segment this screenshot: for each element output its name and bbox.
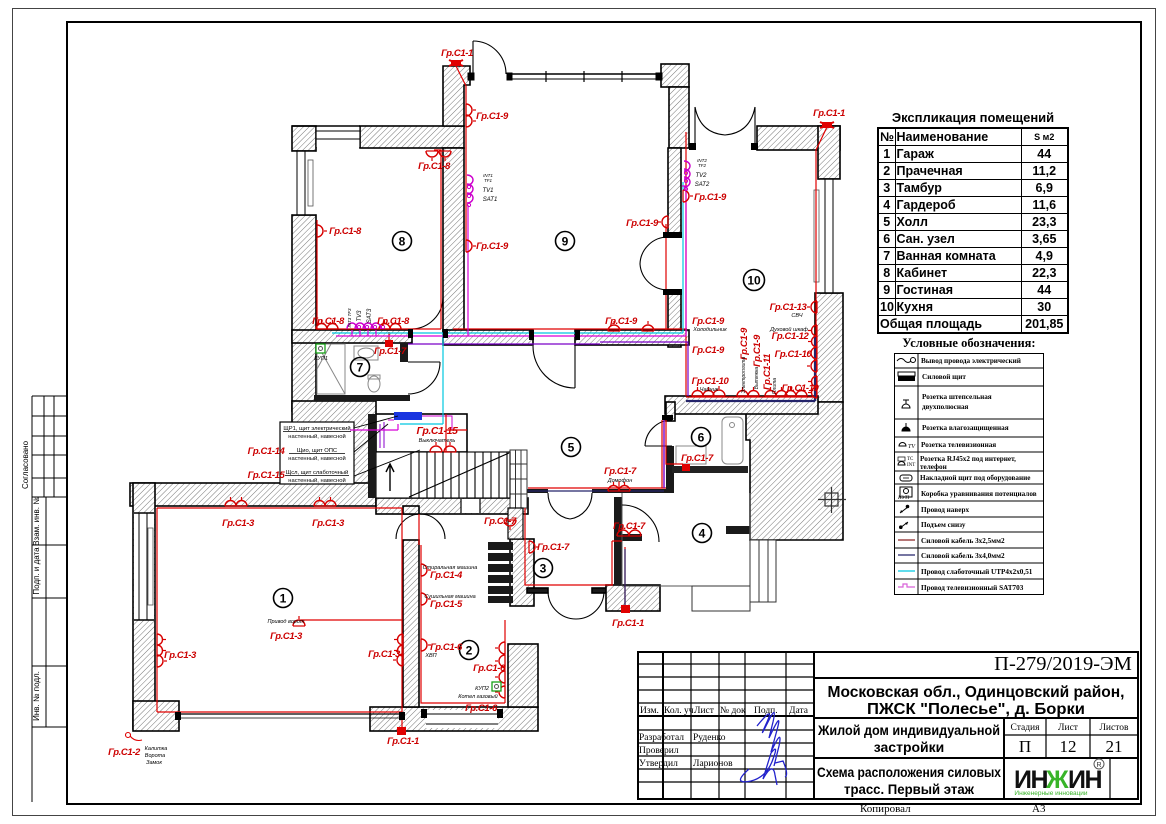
socket room2 right wall 2 (495, 655, 505, 667)
svg-text:Гр.С1-9: Гр.С1-9 (476, 111, 509, 122)
wall san-uzel left upper2 (666, 402, 675, 421)
socket room8 left (317, 225, 327, 237)
svg-text:Лист: Лист (1058, 723, 1079, 733)
socket rack hall (529, 541, 539, 553)
tv socket room9 stack INT1/TV1/SAT1 (467, 175, 473, 189)
room 6 circle (692, 428, 711, 447)
socket kitchen bottom 1 (692, 387, 714, 396)
svg-text:Утвердил: Утвердил (639, 759, 678, 769)
socket room2 dryer (421, 593, 431, 605)
panel wires in closet (380, 422, 384, 448)
svg-text:П-279/2019-ЭМ: П-279/2019-ЭМ (994, 653, 1132, 675)
KUP2 box (492, 682, 501, 691)
cross grid marker (818, 487, 846, 513)
svg-text:6: 6 (698, 431, 705, 445)
svg-text:R: R (1096, 762, 1101, 769)
socket garage ceiling 2 (314, 497, 336, 506)
svg-text:Вывод провода электрический: Вывод провода электрический (921, 357, 1021, 365)
socket room8 bottom 2 (379, 320, 401, 329)
garage gate opening bottom (179, 714, 403, 718)
double door entry room3 bottom (548, 592, 604, 619)
wall sanuzel-hall vertical (666, 446, 674, 493)
svg-text:Стиральная машина: Стиральная машина (423, 565, 478, 571)
svg-text:Гр.С1-5: Гр.С1-5 (430, 599, 463, 610)
svg-text:телефон: телефон (920, 463, 947, 471)
wall hall bottom right seg (592, 489, 673, 493)
svg-text:Гр.С1-6: Гр.С1-6 (465, 703, 498, 714)
svg-text:Дата: Дата (789, 706, 809, 716)
wall stub room4 left top (616, 534, 642, 541)
svg-text:TF2: TF2 (698, 163, 706, 168)
socket garage right wall (394, 634, 403, 656)
wall hall top right of opening (575, 330, 689, 345)
wall room7/8 bottom (292, 330, 412, 343)
socket room9 right (658, 216, 668, 228)
svg-text:Гр.С1-3: Гр.С1-3 (164, 650, 197, 661)
wall room8 top-left corner block (292, 126, 316, 151)
room 9 circle (556, 232, 575, 251)
socket hall above rack (504, 520, 516, 530)
svg-text:КУП2: КУП2 (475, 686, 489, 692)
left rows (637, 664, 814, 782)
svg-text:Руденко: Руденко (693, 733, 726, 743)
door room7 (408, 362, 440, 394)
svg-text:Гр.С1-3: Гр.С1-3 (270, 631, 303, 642)
wire red room9 bottom and right (453, 224, 687, 330)
svg-text:Вытяжка: Вытяжка (754, 367, 760, 390)
svg-text:Лист: Лист (694, 706, 715, 716)
svg-text:8: 8 (399, 235, 406, 249)
wire red hall (528, 420, 666, 488)
socket room8 top 1 (426, 151, 438, 161)
porch steps right (750, 540, 776, 602)
INZHIN logo (1014, 759, 1104, 797)
svg-text:ХВП: ХВП (424, 653, 436, 659)
svg-text:Ларионов: Ларионов (693, 759, 733, 769)
svg-text:Гр.С1-8: Гр.С1-8 (418, 161, 451, 172)
svg-text:настенный, навесной: настенный, навесной (288, 455, 345, 462)
svg-text:двухполюсная: двухполюсная (922, 403, 969, 411)
svg-text:Розетка телевизионная: Розетка телевизионная (921, 441, 996, 449)
double door hall-room3 (548, 493, 592, 519)
svg-text:Московская обл., Одинцовский р: Московская обл., Одинцовский район, (828, 684, 1125, 701)
room 5 circle (562, 438, 581, 457)
door arc entrance room9 top (473, 41, 506, 77)
svg-text:ЩР1, щит электрический: ЩР1, щит электрический (283, 425, 350, 432)
svg-text:Гр.С1-9: Гр.С1-9 (626, 218, 659, 229)
svg-text:2: 2 (466, 644, 473, 658)
wall room8 top (360, 126, 464, 148)
socket garage ceiling 1 (225, 497, 247, 506)
wire UTP cyan hall run (332, 182, 683, 424)
wire red sanuzel (666, 415, 683, 464)
socket kitchen right oven (808, 325, 817, 347)
socket hall domofon (608, 482, 630, 491)
socket room2 right wall 1 (495, 642, 505, 654)
jamb caps at wall openings (175, 143, 758, 720)
door garage-room2 (396, 514, 445, 539)
socket room2 hvp (421, 639, 431, 651)
stage sheet (1011, 723, 1130, 733)
svg-text:Гр.С1-9: Гр.С1-9 (694, 192, 727, 203)
socket kitchen bottom 2 (737, 387, 759, 396)
wire red kitchen perimeter (686, 127, 827, 397)
svg-text:Схема расположения силовых: Схема расположения силовых (817, 764, 1001, 780)
wall room10 top (757, 126, 840, 150)
svg-text:Взам. инв. №: Взам. инв. № (32, 496, 41, 546)
svg-text:Гр.С1-10: Гр.С1-10 (692, 376, 730, 387)
svg-text:Силовой щит: Силовой щит (922, 373, 966, 381)
svg-text:Замок: Замок (146, 760, 162, 766)
wire purple hall top (408, 342, 688, 396)
wire red feed from star top (456, 66, 466, 250)
svg-text:Кол. уч: Кол. уч (664, 706, 694, 716)
wall garage left (133, 483, 155, 729)
annotation box left (280, 422, 354, 484)
svg-text:Гр.С1-9: Гр.С1-9 (605, 316, 638, 327)
svg-text:Инженерные инновации: Инженерные инновации (1014, 790, 1088, 797)
window garage left wall (134, 513, 154, 620)
wall garage top (130, 483, 376, 506)
wall garage right / room2 left (403, 540, 419, 707)
wall room9/room10 upper (669, 87, 689, 148)
socket kitchen bottom 4 (785, 387, 807, 396)
room 3 circle (534, 559, 553, 578)
svg-text:Гр.С1-9: Гр.С1-9 (692, 345, 725, 356)
socket kitchen bottom 1b (713, 386, 725, 396)
svg-text:Гр.С1-14: Гр.С1-14 (248, 446, 286, 457)
socket kitchen right 10c (808, 376, 817, 398)
svg-text:трасс. Первый этаж: трасс. Первый этаж (844, 781, 975, 797)
svg-text:Гр.С1-9: Гр.С1-9 (692, 316, 725, 327)
svg-text:Изм.: Изм. (640, 706, 659, 716)
svg-text:Калитка: Калитка (145, 746, 168, 752)
svg-text:Плита: Плита (772, 378, 778, 394)
sink room7 (354, 346, 378, 360)
svg-text:Гр.С1-7: Гр.С1-7 (613, 521, 646, 532)
svg-text:настенный, навесной: настенный, навесной (288, 433, 345, 440)
socket garage left wall (157, 634, 166, 656)
socket kitchen right 10b (807, 360, 817, 372)
svg-text:9: 9 (562, 235, 569, 249)
tv socket room8 stack (347, 323, 361, 329)
legend symbols (897, 358, 916, 588)
panel ShchR1 blue (394, 412, 422, 420)
svg-text:SAT2: SAT2 (695, 182, 710, 188)
wire power navy kitchen bottom (686, 335, 815, 401)
window room10 right wall (814, 179, 840, 293)
wall bottom of room2 (370, 707, 538, 731)
svg-text:Гр.С1-8: Гр.С1-8 (312, 316, 345, 327)
cabinet grid hall (510, 450, 527, 508)
svg-text:TV3: TV3 (357, 310, 363, 322)
socket kitchen bottom 3 (765, 387, 787, 396)
svg-text:Гр.С1-2: Гр.С1-2 (108, 747, 141, 758)
svg-text:Гр.С1-1: Гр.С1-1 (813, 108, 845, 119)
svg-text:КУП1: КУП1 (314, 356, 328, 362)
wall san-uzel bottom dark band (672, 466, 748, 473)
svg-text:Разработал: Разработал (639, 732, 684, 743)
wall boiler corner room2 (508, 644, 538, 707)
svg-text:Гр.С1-10: Гр.С1-10 (775, 349, 813, 360)
door room8 (412, 298, 443, 330)
gate wire symbol C1-2 (126, 733, 143, 741)
tv socket kitchen stack INT2/TV2/SAT2 (684, 161, 690, 175)
door hall-room4 (622, 505, 659, 542)
wall entry sill left (527, 588, 548, 593)
wall between room8 and room9 upper stub (443, 66, 470, 126)
svg-text:Гр.С1-9: Гр.С1-9 (476, 241, 509, 252)
svg-text:Щио, щит ОПС: Щио, щит ОПС (297, 448, 337, 454)
room 7 circle (351, 358, 370, 377)
signature scribble (740, 712, 786, 785)
svg-text:Гр.С1-8: Гр.С1-8 (329, 226, 362, 237)
svg-text:Гр.С1-9: Гр.С1-9 (739, 327, 750, 360)
wall stub room4 mid right (726, 526, 750, 534)
feed square garage bottom (397, 727, 406, 735)
svg-text:Розетка RJ45x2 под интернет,: Розетка RJ45x2 под интернет, (920, 455, 1016, 463)
wall garage bottom-left corner (133, 701, 179, 731)
svg-text:TF1: TF1 (484, 178, 492, 183)
wall room7 right stub (400, 343, 408, 362)
left columns verticals (662, 651, 664, 799)
object name (817, 722, 1001, 797)
svg-text:СВЧ: СВЧ (791, 313, 802, 319)
socket kitchen left top (683, 190, 693, 202)
wall room9/room10 mid (668, 148, 681, 237)
svg-text:Холодильник: Холодильник (692, 327, 727, 333)
svg-text:Электроплита: Электроплита (741, 357, 747, 394)
svg-text:Стадия: Стадия (1011, 723, 1041, 733)
wall garage right upper stub (403, 506, 419, 514)
svg-text:Гр.С1-15: Гр.С1-15 (248, 470, 286, 481)
svg-text:Гр.С1-13: Гр.С1-13 (770, 302, 808, 313)
socket garage left wall 2 (157, 655, 167, 667)
svg-text:Домофон: Домофон (607, 478, 633, 484)
wall chunk below cabinet (508, 508, 523, 539)
svg-text:Духовой шкаф: Духовой шкаф (769, 326, 808, 333)
svg-text:Гр.С1-7: Гр.С1-7 (484, 516, 517, 527)
wall between room8 and room9 (443, 148, 464, 332)
svg-text:П: П (1019, 737, 1031, 756)
wall porch at entry (606, 585, 660, 611)
door hall-sanuzel (645, 420, 672, 446)
porch slab at entry (692, 586, 750, 611)
feed star kitchen top (820, 122, 834, 128)
svg-text:ПЖСК "Полесье", д. Борки: ПЖСК "Полесье", д. Борки (867, 701, 1085, 718)
room 2 circle (460, 641, 479, 660)
socket room9 bottom 1 (608, 321, 620, 331)
wire TV magenta runs (336, 186, 686, 430)
socket closet 2 (444, 442, 456, 452)
svg-text:Ворота: Ворота (145, 753, 165, 759)
window room8 top wall (292, 126, 360, 148)
room 1 circle (274, 589, 293, 608)
annotation box text (283, 425, 351, 484)
socket wall89 lower (466, 240, 476, 252)
stairs left wall (368, 414, 376, 498)
svg-text:TV2: TV2 (695, 173, 707, 179)
wall under stairs (376, 498, 528, 514)
svg-text:TV: TV (908, 444, 916, 450)
svg-text:Сушильная машина: Сушильная машина (424, 594, 475, 600)
wall room3/room4 solid (614, 497, 622, 585)
wall kitchen bottom (665, 396, 818, 414)
socket room4 stub 2 (629, 526, 641, 536)
wall room7 bottom band (314, 395, 410, 401)
svg-text:Гр.С1-3: Гр.С1-3 (222, 518, 255, 529)
wire power red room8 perimeter (157, 66, 827, 727)
svg-text:Гр.С1-8: Гр.С1-8 (377, 316, 410, 327)
svg-text:SAT3: SAT3 (367, 308, 373, 323)
svg-text:Согласовано: Согласовано (21, 440, 30, 489)
svg-text:Силовой кабель 3х2,5мм2: Силовой кабель 3х2,5мм2 (921, 537, 1005, 545)
wire red closet drop (389, 332, 467, 452)
wall hall top left of opening (443, 330, 533, 345)
svg-text:Гр.С1-1: Гр.С1-1 (612, 618, 644, 629)
svg-text:Гр.С1-7: Гр.С1-7 (681, 453, 714, 464)
svg-text:21: 21 (1106, 737, 1123, 756)
door gap under stairs wall (461, 499, 480, 513)
wire purple sanuzel (663, 420, 665, 488)
toilet room7 (368, 375, 380, 392)
feed square sanuzel (682, 464, 690, 471)
socket kitchen right 10a (807, 347, 817, 359)
svg-text:INT3 TF3: INT3 TF3 (347, 308, 352, 327)
socket room9 bottom 2 (642, 321, 654, 331)
svg-text:Гр.С1-1: Гр.С1-1 (441, 48, 473, 59)
svg-text:Подп. и дата: Подп. и дата (32, 547, 41, 595)
room 4 circle (693, 524, 712, 543)
door room9-room10 (640, 237, 668, 290)
svg-text:Гр.С1-3: Гр.С1-3 (312, 518, 345, 529)
window band room9 top (468, 71, 662, 82)
socket closet 1 (430, 442, 442, 452)
svg-text:Котел газовый: Котел газовый (458, 693, 498, 700)
stairs (376, 452, 510, 498)
svg-text:Провод слаботочный UTP4х2х0,51: Провод слаботочный UTP4х2х0,51 (921, 568, 1033, 576)
wall right top corner (818, 126, 840, 179)
svg-text:Жилой дом индивидуальной: Жилой дом индивидуальной (817, 722, 1000, 738)
wall hall bottom left seg (527, 489, 548, 493)
svg-text:№ док: № док (720, 706, 746, 716)
door hall-room9 (533, 345, 575, 388)
svg-text:КУП: КУП (897, 495, 910, 501)
socket room4 stub 1 (617, 526, 629, 536)
room4 thin boundary lines (622, 493, 750, 586)
svg-text:Коробка уравнивания потенциало: Коробка уравнивания потенциалов (921, 490, 1037, 498)
svg-text:Накладной щит под оборудование: Накладной щит под оборудование (920, 474, 1031, 482)
feed square room7 (385, 340, 393, 347)
svg-text:Гр.С1-10: Гр.С1-10 (782, 383, 820, 394)
svg-text:Подъем снизу: Подъем снизу (921, 521, 966, 529)
svg-text:Гр.С1-4: Гр.С1-4 (430, 570, 463, 581)
wall right below window (815, 293, 843, 402)
socket garage gate drive (293, 616, 305, 626)
svg-text:Выключатель: Выключатель (419, 438, 456, 444)
wall entry sill right (592, 588, 607, 593)
svg-text:5: 5 (568, 441, 575, 455)
svg-text:Чайник: Чайник (700, 386, 719, 393)
svg-text:Листов: Листов (1099, 723, 1129, 733)
wall room8 left lower (292, 215, 316, 411)
wall mass left of stairs below room7 (292, 401, 376, 501)
room 8 circle (393, 232, 412, 251)
feed square porch (621, 605, 630, 613)
svg-text:Гр.С1-6: Гр.С1-6 (473, 663, 506, 674)
svg-text:Гр.С1-7: Гр.С1-7 (604, 466, 637, 477)
wire red garage loop (157, 508, 402, 727)
svg-text:1: 1 (280, 592, 287, 606)
svg-text:Провод телевизионный SAT703: Провод телевизионный SAT703 (921, 584, 1024, 592)
svg-text:SAT1: SAT1 (483, 197, 498, 203)
socket room2 boiler 2 (495, 686, 505, 698)
svg-text:Розетка штепсельная: Розетка штепсельная (922, 393, 992, 401)
svg-text:Гр.С1-6: Гр.С1-6 (430, 642, 463, 653)
svg-text:3: 3 (540, 562, 547, 576)
socket room8 top 2 (439, 151, 451, 161)
socket wall89 upper (466, 104, 476, 116)
wire red room2 (419, 514, 505, 703)
svg-text:Провод наверх: Провод наверх (921, 506, 969, 514)
shower room7 (317, 344, 345, 394)
svg-text:INT: INT (907, 463, 915, 468)
svg-text:4: 4 (699, 527, 706, 541)
socket room2 boiler 1 (495, 671, 505, 683)
wall room2/room3 (510, 539, 534, 606)
socket room8 bottom 1 (316, 320, 338, 329)
address lines (828, 684, 1125, 718)
svg-text:TC: TC (907, 457, 914, 462)
svg-text:Инв. № подл.: Инв. № подл. (32, 671, 41, 721)
door arcs kitchen double top (695, 107, 755, 148)
room 10 circle (744, 270, 765, 291)
feed star room8 top (449, 60, 463, 66)
socket room2 washing (421, 564, 431, 576)
wire red room3 loop (525, 508, 625, 606)
window room8 left wall (293, 151, 315, 215)
wire navy hall (528, 491, 664, 605)
wire red gate drive (301, 619, 402, 621)
right part (814, 677, 1139, 679)
svg-text:Гр.С1-7: Гр.С1-7 (374, 346, 407, 357)
leader lines from annotation box (354, 416, 420, 476)
svg-text:12: 12 (1060, 737, 1077, 756)
stairs up arrow (386, 464, 394, 491)
svg-text:Проверил: Проверил (639, 746, 679, 756)
svg-text:TV1: TV1 (482, 188, 493, 194)
wall room9/room10 top block (661, 64, 689, 87)
electrical closet (376, 414, 467, 452)
socket kitchen right svc (807, 301, 817, 313)
wall SE exterior mass (746, 402, 843, 540)
svg-text:настенный, навесной: настенный, навесной (288, 477, 345, 484)
svg-text:Гр.С1-15: Гр.С1-15 (417, 425, 458, 437)
svg-text:Привод ворот: Привод ворот (268, 619, 305, 625)
wall room9/room10 lower (668, 290, 681, 347)
bottom margin texts (860, 803, 911, 815)
svg-text:7: 7 (357, 361, 364, 375)
svg-text:Гр.С1-7: Гр.С1-7 (537, 542, 570, 553)
KUP1 box (316, 344, 325, 353)
svg-text:застройки: застройки (874, 739, 945, 755)
svg-text:Гр.С1-1: Гр.С1-1 (387, 736, 419, 747)
svg-text:Розетка влагозащищенная: Розетка влагозащищенная (922, 424, 1009, 432)
svg-text:Гр.С1-3: Гр.С1-3 (368, 649, 401, 660)
garage door opening in bottom wall (426, 710, 498, 728)
svg-text:Щсл, щит слаботочный: Щсл, щит слаботочный (286, 469, 348, 476)
bath room6 (676, 417, 743, 464)
